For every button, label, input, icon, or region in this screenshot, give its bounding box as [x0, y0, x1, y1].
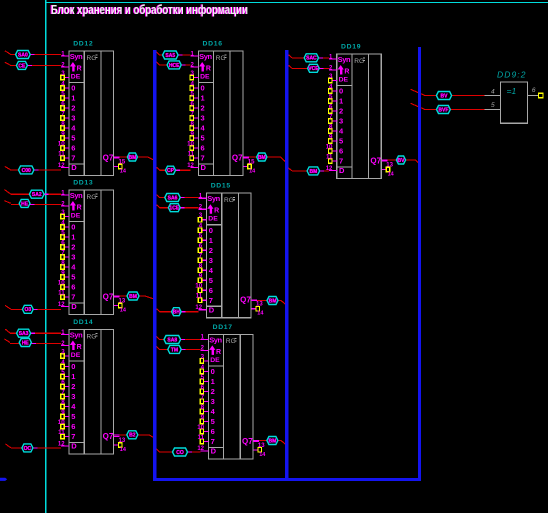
- svg-text:6: 6: [209, 286, 213, 295]
- xor gate DD9:2: [497, 70, 528, 124]
- svg-text:BM: BM: [129, 155, 137, 161]
- svg-text:D: D: [71, 163, 77, 172]
- svg-text:5: 5: [61, 230, 65, 237]
- port DD16 Q7 net: [257, 153, 267, 161]
- svg-text:7: 7: [201, 154, 205, 163]
- svg-text:5: 5: [211, 417, 215, 426]
- port to DD12 pin 1: [16, 51, 31, 59]
- svg-text:14: 14: [120, 169, 127, 175]
- svg-text:O3: O3: [24, 307, 31, 313]
- svg-text:7: 7: [211, 437, 215, 446]
- port to DD12 pin 12: [19, 166, 34, 174]
- svg-text:14: 14: [257, 311, 264, 317]
- svg-text:5: 5: [329, 94, 333, 101]
- svg-text:3: 3: [71, 253, 75, 262]
- port to DD12 pin 2: [16, 61, 27, 69]
- wire bus to DD16 pin 1: [156, 52, 198, 56]
- svg-text:6: 6: [71, 422, 75, 431]
- wire DD13 Q7 to bus: [114, 296, 153, 299]
- port to DD15 pin 2: [168, 204, 180, 212]
- wire net to DD14 pin 1: [5, 329, 69, 335]
- svg-text:6: 6: [201, 144, 205, 153]
- svg-text:B2: B2: [129, 433, 136, 439]
- svg-text:5: 5: [491, 102, 495, 109]
- svg-text:12: 12: [58, 163, 65, 169]
- svg-text:DD14: DD14: [73, 319, 93, 326]
- sheet border top line: [46, 2, 548, 4]
- svg-text:10: 10: [58, 280, 65, 287]
- port DD19 Q7 net: [396, 156, 405, 164]
- svg-text:DD16: DD16: [203, 40, 223, 47]
- svg-text:10: 10: [197, 424, 204, 431]
- svg-text:HE: HE: [21, 201, 29, 207]
- svg-text:Syn: Syn: [207, 194, 220, 203]
- svg-text:5: 5: [201, 374, 205, 381]
- svg-text:0: 0: [71, 223, 75, 232]
- svg-text:DD17: DD17: [213, 324, 233, 331]
- svg-text:C00: C00: [22, 168, 31, 174]
- svg-text:SA5: SA5: [165, 53, 175, 59]
- wire bus to DD16 pin 12: [156, 167, 198, 170]
- svg-text:Q7: Q7: [370, 156, 381, 165]
- svg-text:9: 9: [61, 409, 65, 416]
- svg-text:12: 12: [195, 305, 202, 311]
- DD9:2 pin 6 output stub: [528, 87, 543, 98]
- svg-text:D: D: [339, 166, 345, 175]
- svg-text:DE: DE: [339, 77, 349, 84]
- svg-text:11: 11: [196, 293, 203, 300]
- svg-text:5: 5: [201, 134, 205, 143]
- svg-text:8: 8: [61, 121, 65, 128]
- svg-text:R: R: [344, 68, 349, 75]
- svg-text:0: 0: [71, 84, 75, 93]
- svg-text:RG: RG: [87, 194, 97, 201]
- port to DD19 pin 1: [304, 54, 318, 62]
- wire net to DD13 pin 2: [5, 201, 70, 206]
- svg-text:Syn: Syn: [209, 335, 222, 344]
- svg-text:BVF: BVF: [438, 107, 448, 113]
- svg-text:6: 6: [199, 243, 203, 250]
- svg-text:1: 1: [209, 236, 213, 245]
- wire DD16 Q7 to bus: [243, 157, 286, 162]
- svg-text:7: 7: [339, 157, 343, 166]
- wire bus to DD15 pin 1: [156, 195, 206, 199]
- svg-text:7: 7: [71, 154, 75, 163]
- svg-text:R: R: [216, 349, 221, 356]
- svg-text:CO: CO: [176, 450, 184, 456]
- svg-text:12: 12: [326, 166, 333, 172]
- wire bus to DD19 pin 12: [288, 168, 336, 171]
- svg-text:10: 10: [58, 141, 65, 148]
- svg-text:CP: CP: [167, 168, 175, 174]
- svg-text:5: 5: [61, 91, 65, 98]
- svg-text:RG: RG: [354, 58, 364, 65]
- svg-text:D: D: [201, 163, 207, 172]
- svg-text:Q7: Q7: [242, 437, 253, 446]
- bus 3 vertical: [418, 47, 421, 479]
- svg-text:5: 5: [339, 137, 343, 146]
- svg-text:6: 6: [532, 87, 536, 94]
- svg-text:DD12: DD12: [73, 40, 93, 47]
- svg-text:3: 3: [71, 392, 75, 401]
- svg-text:6: 6: [339, 147, 343, 156]
- svg-text:4: 4: [61, 359, 65, 366]
- svg-text:6: 6: [71, 283, 75, 292]
- DD9:2 pin 5 stub: [484, 102, 500, 109]
- port DD9:2 pin 4 net: [436, 92, 451, 100]
- wire bus to DD16 pin 2: [156, 62, 198, 67]
- svg-text:4: 4: [491, 88, 495, 95]
- svg-text:1: 1: [71, 372, 75, 381]
- svg-text:R: R: [77, 344, 82, 351]
- svg-text:DE: DE: [71, 352, 81, 359]
- svg-text:11: 11: [187, 151, 194, 158]
- svg-text:Syn: Syn: [70, 191, 83, 200]
- wire DD14 Q7 to bus: [114, 435, 153, 437]
- svg-text:D: D: [209, 305, 215, 314]
- svg-text:2: 2: [209, 246, 213, 255]
- svg-text:R: R: [77, 65, 82, 72]
- svg-text:3: 3: [61, 349, 65, 356]
- port to DD13 pin 2: [19, 199, 30, 207]
- svg-text:VCE: VCE: [308, 66, 319, 72]
- svg-text:11: 11: [58, 290, 65, 297]
- wire net to DD13 pin 12: [5, 305, 69, 309]
- svg-text:2: 2: [71, 104, 75, 113]
- svg-text:SAC: SAC: [306, 56, 317, 62]
- svg-text:7: 7: [191, 111, 195, 118]
- svg-text:3: 3: [201, 114, 205, 123]
- svg-text:0: 0: [211, 367, 215, 376]
- wire bus to DD15 pin 2: [156, 205, 206, 210]
- svg-text:D: D: [71, 442, 77, 451]
- svg-text:9: 9: [61, 131, 65, 138]
- port to DD16 pin 2: [167, 61, 181, 69]
- svg-text:DD9:2: DD9:2: [497, 70, 527, 80]
- svg-text:7: 7: [201, 394, 205, 401]
- svg-text:3: 3: [71, 114, 75, 123]
- svg-text:DD13: DD13: [73, 179, 93, 186]
- register DD16: [187, 40, 256, 175]
- wire net to DD12 pin 2: [5, 62, 69, 67]
- svg-text:OC: OC: [24, 446, 32, 452]
- svg-text:R: R: [77, 204, 82, 211]
- svg-text:RG: RG: [216, 55, 226, 62]
- svg-text:6: 6: [71, 144, 75, 153]
- svg-text:RG: RG: [226, 338, 236, 345]
- svg-text:11: 11: [58, 151, 65, 158]
- svg-text:SA6: SA6: [168, 195, 178, 201]
- svg-text:8: 8: [191, 121, 195, 128]
- svg-text:10: 10: [326, 144, 333, 151]
- svg-text:1: 1: [71, 233, 75, 242]
- svg-text:BM: BM: [269, 438, 277, 444]
- port to DD17 pin 1: [164, 336, 181, 344]
- svg-text:7: 7: [61, 111, 65, 118]
- port DD12 Q7 net: [127, 153, 137, 161]
- svg-text:7: 7: [199, 253, 203, 260]
- svg-text:11: 11: [326, 154, 333, 161]
- wire net to DD12 pin 12: [5, 166, 69, 170]
- port DD13 Q7 net: [127, 292, 139, 300]
- svg-text:RG: RG: [224, 197, 234, 204]
- bus 2 vertical: [285, 50, 288, 479]
- svg-text:R: R: [214, 208, 219, 215]
- svg-text:3: 3: [201, 353, 205, 360]
- register DD15: [195, 183, 264, 318]
- wire net to DD14 pin 2: [5, 339, 70, 346]
- svg-text:D: D: [211, 447, 217, 456]
- bus stub at left edge: [0, 478, 7, 481]
- svg-text:14: 14: [388, 172, 395, 178]
- wire bus to DD9:2 pin 4: [411, 89, 486, 95]
- svg-text:12: 12: [197, 446, 204, 452]
- svg-text:Syn: Syn: [70, 331, 83, 340]
- svg-text:9: 9: [201, 414, 205, 421]
- wire bus to DD19 pin 1: [288, 55, 336, 59]
- wire bus to DD17 pin 1: [156, 336, 208, 339]
- svg-text:6: 6: [61, 379, 65, 386]
- svg-text:3: 3: [339, 117, 343, 126]
- svg-text:6: 6: [61, 101, 65, 108]
- register DD17: [197, 324, 266, 459]
- svg-text:10: 10: [195, 283, 202, 290]
- svg-text:2: 2: [71, 243, 75, 252]
- wire bus to DD17 pin 12: [156, 449, 208, 452]
- svg-text:8: 8: [61, 399, 65, 406]
- wire net to DD12 pin 1: [5, 51, 69, 56]
- port to DD13 pin 1: [29, 190, 44, 198]
- svg-text:11: 11: [58, 429, 65, 436]
- svg-text:2: 2: [201, 104, 205, 113]
- svg-text:5: 5: [71, 134, 75, 143]
- svg-text:6: 6: [329, 104, 333, 111]
- svg-text:6: 6: [211, 427, 215, 436]
- svg-text:Syn: Syn: [70, 52, 83, 61]
- svg-text:10: 10: [58, 419, 65, 426]
- svg-text:0: 0: [71, 362, 75, 371]
- svg-text:5: 5: [71, 273, 75, 282]
- svg-text:RG: RG: [87, 333, 97, 340]
- svg-text:SA8: SA8: [167, 337, 177, 343]
- svg-text:5: 5: [191, 91, 195, 98]
- svg-text:DD19: DD19: [341, 43, 361, 50]
- svg-text:6: 6: [61, 240, 65, 247]
- svg-text:D: D: [71, 302, 77, 311]
- svg-text:Q7: Q7: [232, 153, 243, 162]
- svg-text:4: 4: [329, 84, 333, 91]
- svg-text:5: 5: [199, 233, 203, 240]
- wire bus to DD9:2 pin 5: [411, 103, 486, 109]
- svg-text:8: 8: [61, 260, 65, 267]
- svg-text:3: 3: [211, 397, 215, 406]
- svg-text:DE: DE: [208, 216, 218, 223]
- port to DD15 pin 1: [165, 194, 180, 202]
- svg-text:HCE: HCE: [169, 63, 180, 69]
- register DD19: [326, 43, 395, 178]
- svg-text:BV: BV: [441, 93, 449, 99]
- svg-text:4: 4: [191, 81, 195, 88]
- svg-text:6: 6: [201, 384, 205, 391]
- svg-text:5: 5: [61, 369, 65, 376]
- svg-text:Блок хранения и обработки инфо: Блок хранения и обработки информации: [51, 3, 248, 17]
- port to DD16 pin 12: [166, 166, 176, 174]
- svg-text:14: 14: [249, 169, 256, 175]
- svg-text:CE: CE: [18, 63, 26, 69]
- svg-text:BM: BM: [310, 169, 318, 175]
- svg-text:6: 6: [191, 101, 195, 108]
- svg-text:14: 14: [259, 452, 266, 458]
- svg-text:9: 9: [199, 273, 203, 280]
- svg-text:3: 3: [199, 212, 203, 219]
- register DD13: [58, 179, 127, 314]
- svg-text:10: 10: [187, 141, 194, 148]
- svg-text:1: 1: [71, 94, 75, 103]
- svg-text:14: 14: [120, 308, 127, 314]
- svg-text:12: 12: [58, 302, 65, 308]
- port DD15 Q7 net: [267, 297, 278, 305]
- bus bottom horizontal: [153, 478, 421, 481]
- svg-text:11: 11: [198, 434, 205, 441]
- svg-text:0: 0: [201, 84, 205, 93]
- sheet border left line: [45, 0, 47, 513]
- port to DD14 pin 1: [17, 329, 31, 337]
- port to DD14 pin 12: [22, 444, 33, 452]
- svg-text:DE: DE: [71, 213, 81, 220]
- svg-text:Q7: Q7: [103, 432, 114, 441]
- svg-text:14: 14: [120, 447, 127, 453]
- wire DD12 Q7 to bus: [114, 157, 153, 160]
- title text: [50, 3, 248, 17]
- svg-text:3: 3: [61, 209, 65, 216]
- svg-text:BM: BM: [269, 298, 277, 304]
- svg-text:12: 12: [58, 441, 65, 447]
- svg-text:3: 3: [61, 70, 65, 77]
- svg-text:9: 9: [191, 131, 195, 138]
- svg-text:4: 4: [201, 364, 205, 371]
- svg-text:4: 4: [199, 223, 203, 230]
- svg-text:7: 7: [61, 389, 65, 396]
- svg-text:4: 4: [61, 220, 65, 227]
- svg-text:=1: =1: [507, 86, 517, 96]
- port to DD17 pin 2: [168, 345, 181, 353]
- svg-text:3: 3: [209, 256, 213, 265]
- svg-text:DD15: DD15: [211, 183, 231, 190]
- svg-text:2: 2: [71, 382, 75, 391]
- svg-text:4: 4: [61, 81, 65, 88]
- svg-text:3: 3: [191, 70, 195, 77]
- wire DD17 Q7 to bus: [253, 441, 286, 445]
- wire bus to DD15 pin 12: [156, 309, 206, 312]
- svg-text:5: 5: [209, 276, 213, 285]
- svg-text:7: 7: [71, 432, 75, 441]
- svg-text:DE: DE: [200, 74, 210, 81]
- svg-text:1: 1: [201, 94, 205, 103]
- svg-text:SA3: SA3: [19, 331, 29, 337]
- register DD12: [58, 40, 127, 175]
- svg-text:0: 0: [209, 226, 213, 235]
- svg-text:1CE: 1CE: [169, 206, 179, 212]
- port to DD19 pin 12: [307, 167, 320, 175]
- svg-text:5: 5: [71, 412, 75, 421]
- port to DD16 pin 1: [163, 51, 179, 59]
- port DD14 Q7 net: [127, 431, 138, 439]
- svg-text:DE: DE: [71, 74, 81, 81]
- svg-text:8: 8: [199, 263, 203, 270]
- svg-text:TM: TM: [171, 347, 178, 353]
- svg-text:SA0: SA0: [18, 52, 28, 58]
- svg-text:R: R: [206, 65, 211, 72]
- wire DD15 Q7 to bus: [251, 301, 286, 305]
- svg-text:7: 7: [209, 296, 213, 305]
- svg-text:DE: DE: [210, 357, 220, 364]
- svg-text:Q7: Q7: [240, 296, 251, 305]
- DD9:2 pin 4 stub: [484, 88, 500, 95]
- svg-text:12: 12: [187, 163, 194, 169]
- bus 1 vertical: [153, 50, 156, 479]
- svg-text:Syn: Syn: [338, 55, 351, 64]
- svg-text:SA2: SA2: [32, 192, 42, 198]
- svg-text:RG: RG: [87, 55, 97, 62]
- register DD14: [58, 319, 127, 454]
- svg-text:7: 7: [329, 114, 333, 121]
- wire net to DD14 pin 12: [6, 444, 70, 448]
- svg-text:Q7: Q7: [103, 292, 114, 301]
- port to DD17 pin 12: [173, 448, 188, 456]
- svg-text:BV: BV: [398, 158, 406, 164]
- svg-text:HE: HE: [22, 340, 30, 346]
- svg-text:1: 1: [339, 97, 343, 106]
- svg-text:1: 1: [211, 377, 215, 386]
- svg-text:3: 3: [329, 73, 333, 80]
- svg-text:Syn: Syn: [199, 52, 212, 61]
- svg-text:9: 9: [61, 270, 65, 277]
- port to DD15 pin 12: [172, 308, 182, 316]
- wire bus to DD17 pin 2: [156, 346, 208, 350]
- wire bus to DD19 pin 2: [288, 65, 336, 70]
- wire DD19 Q7 to bus: [381, 160, 419, 163]
- port DD9:2 pin 5 net: [437, 106, 451, 114]
- svg-text:Q7: Q7: [103, 153, 114, 162]
- port to DD14 pin 2: [19, 339, 31, 347]
- svg-text:BH: BH: [173, 310, 181, 316]
- svg-text:9: 9: [329, 134, 333, 141]
- svg-text:8: 8: [329, 124, 333, 131]
- svg-text:BM: BM: [258, 155, 266, 161]
- port to DD13 pin 12: [22, 305, 33, 313]
- svg-text:0: 0: [339, 87, 343, 96]
- port DD17 Q7 net: [267, 437, 278, 445]
- svg-text:2: 2: [211, 387, 215, 396]
- svg-text:BM: BM: [129, 294, 137, 300]
- svg-text:7: 7: [61, 250, 65, 257]
- svg-text:2: 2: [339, 107, 343, 116]
- svg-text:8: 8: [201, 404, 205, 411]
- port to DD19 pin 2: [308, 64, 320, 72]
- svg-text:7: 7: [71, 293, 75, 302]
- wire net to DD13 pin 1: [5, 190, 70, 195]
